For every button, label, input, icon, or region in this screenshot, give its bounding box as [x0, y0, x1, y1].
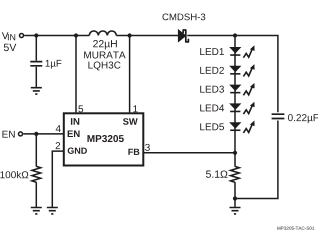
pin number 2 [56, 142, 61, 149]
wire: VIN rail to inductor [24, 35, 89, 37]
capacitor C1 1uF plates [30, 62, 42, 66]
resistor R1 100k zigzag [32, 166, 41, 182]
label 5V [4, 44, 17, 51]
node: bottom ground junction [233, 196, 237, 200]
wire: C1 to ground [35, 67, 37, 87]
node: diode output / LED junction [233, 33, 237, 37]
capacitor C2 0.22uF plates [272, 114, 285, 118]
figure number MP3205-TAC-S01 [277, 227, 314, 230]
value label 22uH [93, 40, 117, 49]
wire: R1 branch from EN line [35, 134, 37, 167]
LED D5 LED4 [229, 102, 254, 114]
node: EN / R1 junction [34, 132, 38, 136]
wire: R1 to ground [35, 182, 37, 207]
label LED2 [200, 67, 224, 74]
value label 5.1ohm [206, 170, 227, 177]
wire: FB pin3 to LED string [143, 152, 235, 154]
label VIN [2, 32, 15, 40]
LED D4 LED3 [229, 83, 254, 95]
terminal EN [19, 132, 23, 136]
label CMDSH-3 [162, 14, 205, 21]
label LED4 [200, 105, 224, 112]
pin label SW [123, 118, 138, 125]
ground symbol (GND pin) [47, 208, 58, 214]
wire: C2 to bottom corner to ground node [235, 121, 278, 199]
ground symbol (output) [230, 208, 241, 214]
value label 1uF [46, 60, 62, 69]
pin label EN [68, 130, 80, 137]
wire: pin5 IN from rail to box [75, 36, 77, 113]
pin number 4 [56, 125, 61, 132]
wire: pin1 SW from rail to box [129, 36, 131, 113]
label EN [2, 131, 14, 138]
node: rail / IN pin junction [74, 33, 78, 37]
wire: EN to box pin4 [23, 133, 64, 135]
label LED1 [200, 48, 224, 55]
wire: LED string vertical [234, 36, 236, 167]
pin label GND [68, 148, 87, 154]
terminal VIN [20, 34, 24, 38]
pin number 3 [145, 144, 150, 151]
IC U1 MP3205 box [64, 113, 144, 165]
diode D1 CMDSH-3 [178, 30, 185, 42]
inductor L1 22uH [89, 31, 116, 36]
wire: R2 to ground node [234, 182, 236, 198]
pin label FB [128, 149, 139, 155]
part label MP3205 [87, 135, 123, 142]
wire: inductor to diode anode [116, 35, 178, 37]
label LED5 [200, 123, 224, 130]
pin number 1 [133, 105, 137, 112]
LED D2 LED1 [229, 45, 254, 57]
LED D6 LED5 [229, 121, 254, 133]
pin number 5 [78, 105, 83, 112]
label MURATA [84, 52, 125, 59]
wire: pin2 GND to ground [52, 151, 64, 207]
label LED3 [200, 86, 224, 93]
wire: diode cathode to top-right corner down to C2 [187, 36, 278, 113]
wire: C1 branch from rail [35, 36, 37, 61]
value label 0.22uF [288, 114, 319, 123]
value label 100kohm [0, 171, 28, 178]
node: VIN rail / C1 junction [34, 33, 38, 37]
pin label IN [71, 118, 79, 125]
node: FB junction [233, 151, 237, 155]
ground symbol (C1) [31, 88, 42, 94]
label LQH3C [88, 62, 120, 71]
resistor R2 5.1ohm zigzag [230, 166, 239, 182]
ground symbol (R1) [31, 208, 42, 214]
node: rail / SW pin junction [128, 33, 132, 37]
LED D3 LED2 [229, 64, 254, 76]
wire: ground lead bottom node [234, 199, 236, 207]
